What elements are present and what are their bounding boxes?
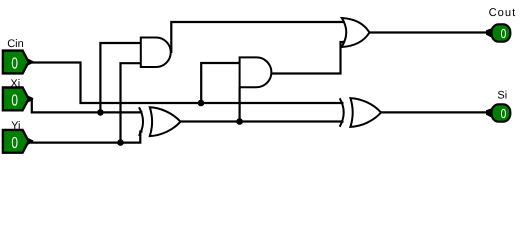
wire XOR1 output branch: up at x=239.6 to AND2 bottom input: [239, 87, 241, 122]
wire Cin branch: up from junction x=201.2 to AND2 top input: [201, 63, 241, 103]
svg-text:Yi: Yi: [11, 120, 20, 132]
input pin Cin tip: [27, 58, 33, 66]
input pin Xi: [3, 88, 29, 111]
xor-gate XOR2 body: [350, 98, 381, 127]
wire Yi net: pin along y=142.6, riser x=140.3 into XOR1 bottom input: [32, 132, 143, 143]
wire Cin net: pin to corner x=80.5, down, along y=103 to XOR2 top input: [32, 63, 344, 104]
input pin Xi tip: [27, 95, 33, 103]
svg-text:0: 0: [501, 26, 507, 41]
svg-text:0: 0: [11, 135, 18, 152]
xor-gate XOR1 body: [150, 107, 181, 136]
svg-text:0: 0: [11, 93, 18, 110]
xor-gate XOR1 extra arc: [139, 107, 143, 136]
node junction XOR1 output net: [236, 118, 243, 125]
wire Xi branch: up from junction x=100.4 to AND1 top input: [100, 43, 142, 112]
output pin Cout: [492, 24, 511, 41]
wire AND2 output: along y=73.5, up at x=340.5, into OR bottom input: [270, 42, 345, 74]
wire Xi net: jog down at pin tip, along y=112.4 to XOR1 top input: [32, 99, 143, 112]
wire XOR1 output: along y=121.5 to XOR2 bottom input: [180, 120, 344, 122]
node junction Cin net: [198, 100, 205, 107]
wire XOR2 output to Si pin: [380, 111, 486, 113]
svg-text:Si: Si: [497, 90, 507, 102]
output pin Cout connector tip: [486, 28, 493, 38]
svg-text:Cout: Cout: [489, 7, 517, 19]
or-gate OR1: [342, 18, 370, 47]
output pin Si connector tip: [486, 108, 493, 118]
svg-text:Cin: Cin: [7, 38, 24, 50]
wire OR output to Cout pin: [369, 31, 488, 33]
svg-text:0: 0: [11, 56, 18, 73]
input pin Cin: [3, 51, 29, 74]
xor-gate XOR2 extra arc: [340, 98, 344, 126]
and-gate AND2: [240, 57, 272, 87]
and-gate AND1: [141, 38, 171, 68]
node junction Xi net: [97, 109, 104, 116]
output pin Si: [492, 104, 511, 121]
svg-text:0: 0: [501, 106, 507, 121]
svg-text:Xi: Xi: [10, 78, 20, 90]
input pin Yi tip: [27, 138, 33, 146]
input pin Yi: [3, 130, 29, 153]
wire AND1 output: up at x=171.3 and along y=22 to OR top input: [171, 22, 345, 53]
node junction Yi net: [117, 139, 124, 146]
wire Yi branch: up from junction x=120.5 to AND1 bottom input: [121, 63, 143, 142]
